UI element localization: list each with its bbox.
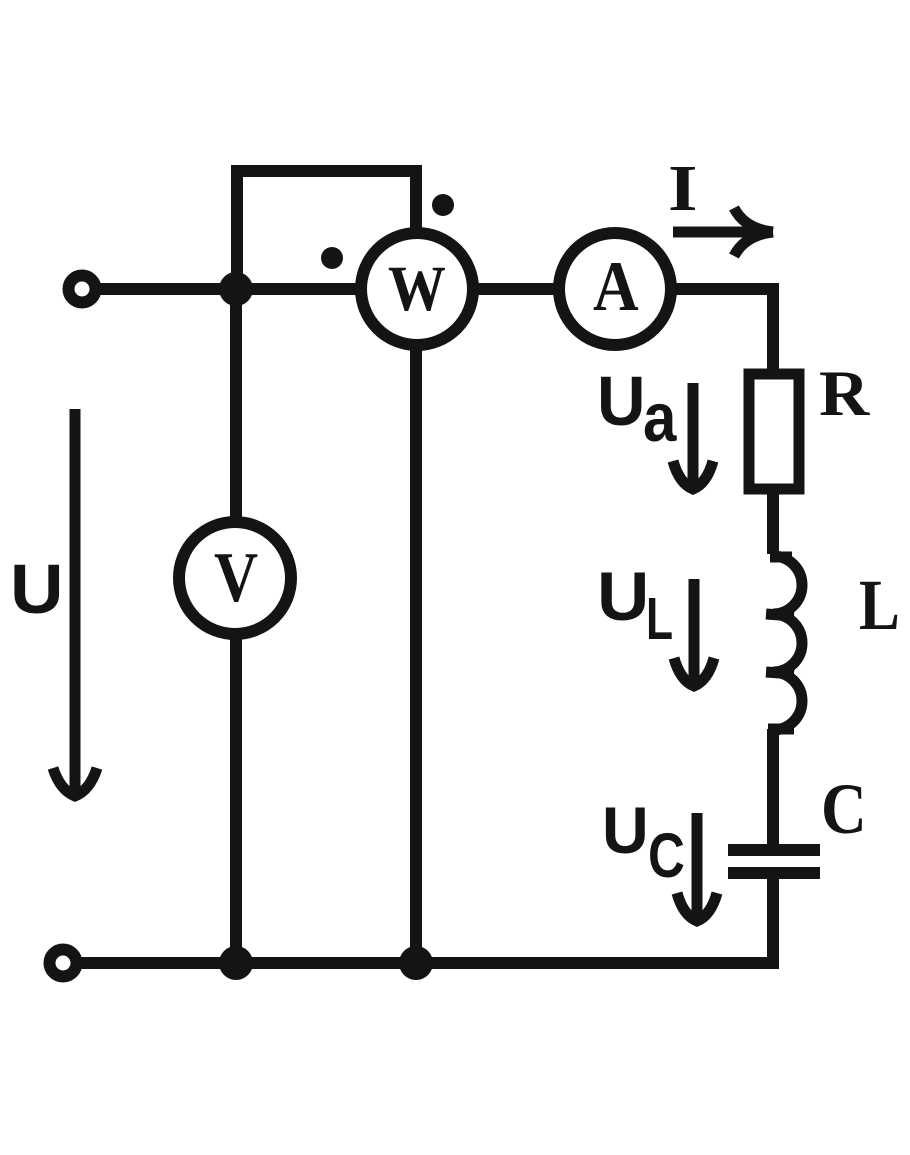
node junction bus-V [219, 946, 253, 980]
svg-text:A: A [593, 247, 639, 326]
arrow I [673, 208, 773, 256]
svg-text:U: U [602, 793, 649, 867]
wire top horizontal from input terminal to junction [98, 283, 243, 295]
wattmeter polarity dot left [321, 247, 343, 269]
wire capacitor bottom plate to bottom bus [767, 878, 779, 969]
wire top loop right vertical down to wattmeter top [410, 171, 422, 229]
svg-text:U: U [597, 558, 649, 635]
svg-text:C: C [821, 769, 867, 849]
terminal top-left [69, 276, 96, 303]
svg-text:a: a [643, 378, 677, 456]
svg-text:U: U [597, 362, 646, 441]
wire junction to wattmeter [237, 283, 356, 295]
svg-text:U: U [10, 551, 64, 629]
arrow UL [674, 579, 714, 686]
svg-text:I: I [668, 152, 698, 224]
wire voltmeter branch upper [230, 289, 242, 518]
capacitor C [728, 850, 820, 873]
node junction bus-W [399, 946, 433, 980]
voltmeter V [179, 522, 291, 634]
wire ammeter to top-right corner [676, 283, 779, 295]
wire right vertical to resistor top [767, 283, 779, 372]
resistor R [749, 374, 799, 489]
label Ua [597, 362, 646, 441]
wire resistor bottom to inductor top [767, 491, 779, 554]
node junction top (input to V/W branch) [219, 272, 253, 306]
wire inductor bottom to capacitor top plate [767, 729, 779, 845]
svg-text:V: V [214, 539, 258, 617]
wire wattmeter to ammeter [478, 283, 554, 295]
label L [859, 565, 900, 645]
svg-text:W: W [388, 253, 446, 325]
wire bottom bus [80, 957, 779, 969]
arrow Ua [673, 383, 713, 489]
wire top loop horizontal [231, 165, 422, 177]
wattmeter W [361, 233, 473, 345]
label R [819, 357, 871, 429]
wire wattmeter voltage coil lead down to bus [410, 349, 422, 963]
wattmeter polarity dot right [432, 194, 454, 216]
arrow U [53, 409, 97, 796]
inductor L [766, 556, 802, 730]
ammeter A [559, 233, 671, 345]
wire top loop left vertical [231, 165, 243, 295]
svg-text:L: L [646, 587, 673, 653]
svg-text:L: L [859, 565, 900, 645]
terminal bottom-left [50, 950, 77, 977]
label I [668, 152, 698, 224]
label U [10, 551, 64, 629]
label UL [597, 558, 649, 635]
arrow UC [677, 813, 717, 921]
wire voltmeter branch lower [230, 638, 242, 963]
svg-text:R: R [819, 357, 871, 429]
label UC [602, 793, 649, 867]
label C [821, 769, 867, 849]
svg-text:C: C [648, 821, 685, 891]
